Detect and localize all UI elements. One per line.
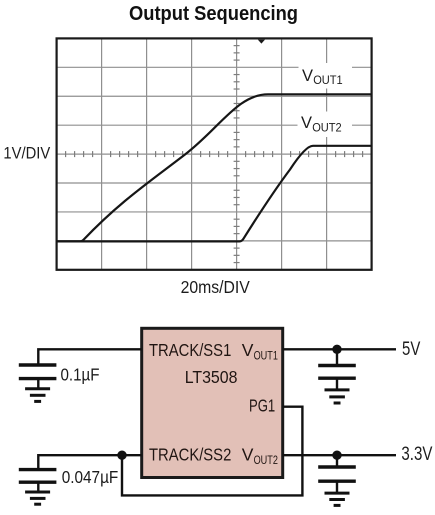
- wire dot to C3: [336, 349, 338, 365]
- svg-text:OUT1: OUT1: [254, 349, 278, 363]
- svg-text:TRACK/SS1: TRACK/SS1: [149, 340, 231, 360]
- ground symbol below C1: [25, 389, 50, 402]
- svg-text:V: V: [242, 445, 254, 465]
- wire VOUT1 to 5V: [283, 348, 396, 350]
- svg-text:0.047µF: 0.047µF: [62, 467, 119, 487]
- trace VOUT2 (lower): [57, 146, 372, 242]
- IC U1 LT3508 body: [142, 328, 283, 477]
- ground symbol below C4: [325, 493, 350, 505]
- capacitor C1 0.1uF plates: [19, 365, 57, 379]
- svg-text:V: V: [302, 67, 313, 85]
- capacitor C2 0.047uF plates: [19, 470, 57, 483]
- node junction dot on TRACK/SS2 wire: [117, 451, 126, 460]
- trace VOUT1 (upper): [57, 94, 372, 241]
- svg-text:V: V: [301, 114, 312, 132]
- label VOUT2 (scope): [298, 112, 353, 138]
- svg-text:Output Sequencing: Output Sequencing: [129, 3, 298, 25]
- wire dot to C4: [336, 455, 338, 467]
- capacitor C3 plates: [318, 366, 356, 379]
- svg-text:V: V: [242, 340, 254, 360]
- svg-text:TRACK/SS2: TRACK/SS2: [149, 445, 231, 465]
- wire C2 to ground: [37, 482, 39, 492]
- scope graticule gridlines: [57, 38, 372, 269]
- node junction dot on VOUT1 wire: [332, 345, 341, 354]
- svg-text:5V: 5V: [402, 339, 421, 360]
- wire TRACK/SS2 to C2: [38, 455, 141, 469]
- svg-text:20ms/DIV: 20ms/DIV: [181, 277, 250, 297]
- capacitor C4 plates: [318, 467, 356, 481]
- wire PG1 feedback loop to TRACK/SS2 node: [122, 407, 302, 496]
- ground symbol below C2: [25, 492, 50, 504]
- svg-text:1V/DIV: 1V/DIV: [3, 144, 50, 163]
- svg-text:OUT2: OUT2: [254, 453, 278, 467]
- svg-text:OUT2: OUT2: [312, 121, 342, 135]
- svg-text:PG1: PG1: [249, 396, 275, 416]
- scope plot border: [57, 38, 372, 269]
- label VOUT1 (scope): [299, 63, 353, 89]
- node junction dot on VOUT2 wire: [332, 451, 341, 460]
- scope center-axis tick marks: [66, 46, 363, 263]
- wire VOUT2 to 3.3V: [283, 454, 396, 456]
- wire TRACK/SS1 to C1: [38, 349, 141, 365]
- wire C1 to ground: [37, 379, 39, 389]
- wire C4 to ground: [336, 481, 338, 493]
- svg-text:LT3508: LT3508: [185, 367, 238, 387]
- trigger marker triangle: [258, 40, 265, 44]
- wire C3 to ground: [336, 378, 338, 390]
- svg-text:3.3V: 3.3V: [401, 444, 432, 465]
- svg-text:0.1µF: 0.1µF: [61, 365, 100, 385]
- ground symbol below C3: [325, 390, 350, 403]
- svg-text:OUT1: OUT1: [313, 73, 343, 87]
